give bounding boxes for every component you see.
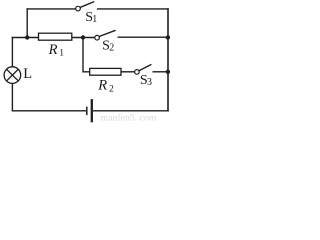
wire R1 to S2 (through node B): [72, 37, 95, 39]
svg-text:2: 2: [109, 84, 114, 94]
svg-text:S3: S3: [140, 73, 152, 88]
switch S2 blade: [99, 30, 115, 36]
node A junction dot: [25, 35, 29, 39]
battery negative plate (short): [86, 107, 88, 116]
wire node B down and to R2: [83, 37, 90, 72]
svg-text:1: 1: [59, 48, 64, 58]
resistor R1 box: [39, 33, 72, 40]
svg-text:R: R: [48, 42, 58, 58]
wire from top corner down to node A: [26, 8, 28, 37]
wire right vertical: [167, 8, 169, 111]
switch S3 pivot circle: [135, 70, 140, 75]
svg-text:R: R: [97, 78, 107, 94]
wire row3 right segment: [153, 71, 169, 73]
svg-text:manfen5. com: manfen5. com: [101, 113, 157, 123]
switch S1 pivot circle: [76, 6, 81, 11]
battery positive plate (long): [91, 99, 93, 122]
wire bottom left segment: [12, 110, 86, 112]
node B junction dot: [81, 35, 85, 39]
svg-text:L: L: [23, 66, 32, 82]
switch S1 blade: [80, 2, 94, 8]
wire left branch upper (to lamp): [11, 37, 13, 67]
wire row2 left (node A to R1): [12, 37, 40, 39]
lamp L cross: [7, 69, 19, 81]
switch S3 blade: [139, 64, 151, 70]
svg-text:S1: S1: [85, 10, 97, 25]
resistor R2 box: [90, 68, 121, 75]
node C junction dot (right wire, row2): [166, 35, 170, 39]
wire top left segment: [27, 8, 75, 10]
switch S2 pivot circle: [95, 35, 100, 40]
node D junction dot (right wire, row3): [166, 70, 170, 74]
svg-text:S2: S2: [102, 38, 114, 53]
wire left branch lower: [11, 83, 13, 110]
wire bottom right segment: [93, 110, 169, 112]
wire R2 to S3: [121, 71, 135, 73]
wire top right segment: [97, 8, 169, 10]
wire row2 right segment: [118, 36, 169, 38]
lamp L circle: [4, 67, 21, 84]
